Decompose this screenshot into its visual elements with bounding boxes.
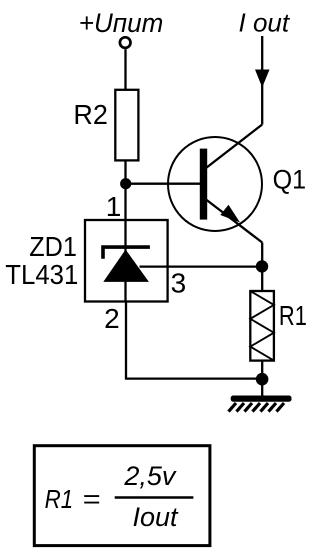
svg-text:R2: R2 bbox=[73, 99, 108, 130]
ground bbox=[229, 396, 292, 412]
arrow on output wire bbox=[255, 70, 270, 88]
node A junction bbox=[120, 178, 131, 189]
TL431 symbol triangle bbox=[103, 250, 149, 282]
node B junction (emitter / pin3 / R1) bbox=[256, 260, 268, 272]
svg-text:3: 3 bbox=[171, 268, 187, 299]
svg-text:I out: I out bbox=[239, 8, 291, 38]
formula box bbox=[34, 446, 210, 546]
wire Q1 emitter corner down bbox=[261, 243, 263, 267]
wire through ZD1 (pin1 to pin2) bbox=[124, 220, 126, 302]
wire ZD1 pin3 to node B bbox=[140, 265, 263, 267]
svg-text:+Uпит: +Uпит bbox=[79, 8, 164, 38]
formula fraction bar bbox=[115, 496, 194, 499]
svg-text:2: 2 bbox=[104, 303, 120, 334]
svg-text:ZD1: ZD1 bbox=[29, 231, 77, 262]
svg-text:2,5v: 2,5v bbox=[123, 461, 177, 491]
svg-text:R1: R1 bbox=[45, 484, 74, 514]
wire node A to Q1 base bbox=[126, 183, 201, 185]
terminal +Uпит bbox=[120, 37, 131, 48]
svg-text:R1: R1 bbox=[279, 300, 307, 331]
wire R2 to node A / ZD1 pin1 bbox=[124, 160, 126, 220]
wire node B to R1 bbox=[261, 266, 263, 291]
svg-text:1: 1 bbox=[106, 191, 122, 222]
wire R1 to node C bbox=[261, 361, 263, 396]
svg-text:=: = bbox=[82, 484, 100, 514]
TL431 symbol cathode bar bbox=[103, 247, 150, 259]
wire I out to Q1 collector bbox=[261, 36, 263, 125]
wire ZD1 pin2 to node C bbox=[126, 302, 262, 379]
transistor Q1 bbox=[168, 125, 262, 243]
resistor R2 bbox=[115, 90, 138, 161]
svg-text:Q1: Q1 bbox=[273, 165, 307, 195]
svg-text:Iout: Iout bbox=[133, 502, 180, 532]
svg-text:TL431: TL431 bbox=[5, 259, 78, 290]
node C junction (ground) bbox=[256, 373, 269, 386]
wire terminal to R2 bbox=[124, 49, 126, 90]
resistor R1 bbox=[250, 291, 274, 361]
IC ZD1 box bbox=[85, 220, 168, 302]
